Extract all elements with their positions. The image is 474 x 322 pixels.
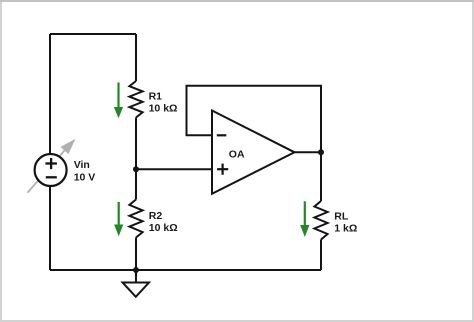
svg-text:R1: R1	[149, 91, 163, 103]
junction node A (R1/R2 divider)	[133, 166, 139, 172]
wire left upper: top corner down to source	[49, 34, 51, 154]
wire: op-amp output to node B	[295, 151, 322, 153]
source minus sign	[46, 176, 57, 178]
junction node B (op-amp output)	[318, 149, 324, 155]
current arrow at R2	[114, 202, 123, 236]
resistor R1	[129, 81, 142, 118]
svg-text:10 V: 10 V	[74, 171, 96, 183]
svg-text:10 kΩ: 10 kΩ	[149, 222, 178, 234]
source plus sign	[45, 158, 57, 177]
ground	[123, 283, 149, 297]
wire left lower: source to bottom corner	[49, 186, 51, 270]
voltage source Vin	[35, 154, 67, 186]
wire: R2 bottom to bottom rail	[135, 238, 137, 271]
wire bottom: left corner to RL bottom	[50, 269, 321, 271]
wire top: source top to R1 top	[50, 33, 136, 35]
resistor R2	[129, 200, 142, 238]
svg-text:OA: OA	[229, 148, 245, 160]
resistor RL	[314, 201, 327, 240]
variable-source gray arrow	[28, 139, 76, 193]
wire: node B down to RL top	[320, 152, 322, 201]
current arrow at RL	[300, 201, 309, 237]
wire: RL bottom to bottom rail	[320, 240, 322, 271]
svg-text:1 kΩ: 1 kΩ	[334, 223, 357, 235]
op-amp plus input sign	[217, 168, 228, 170]
svg-text:10 kΩ: 10 kΩ	[149, 103, 178, 115]
op-amp U1 triangle	[212, 111, 295, 194]
wire: top corner down to R1	[135, 34, 137, 81]
wire: R1 bottom through node A to R2 top	[135, 118, 137, 200]
op-amp minus input sign	[217, 135, 228, 175]
svg-text:R2: R2	[149, 210, 163, 222]
wire: ground stub	[135, 270, 137, 283]
junction node ground	[133, 267, 139, 273]
current arrow at R1	[114, 83, 123, 119]
wire: op-amp minus input feedback loop to output node	[187, 86, 322, 153]
border frame top edge	[0, 0, 474, 2]
svg-text:RL: RL	[334, 211, 349, 223]
wire: node A to op-amp plus input	[136, 168, 212, 170]
svg-text:Vin: Vin	[74, 159, 90, 171]
